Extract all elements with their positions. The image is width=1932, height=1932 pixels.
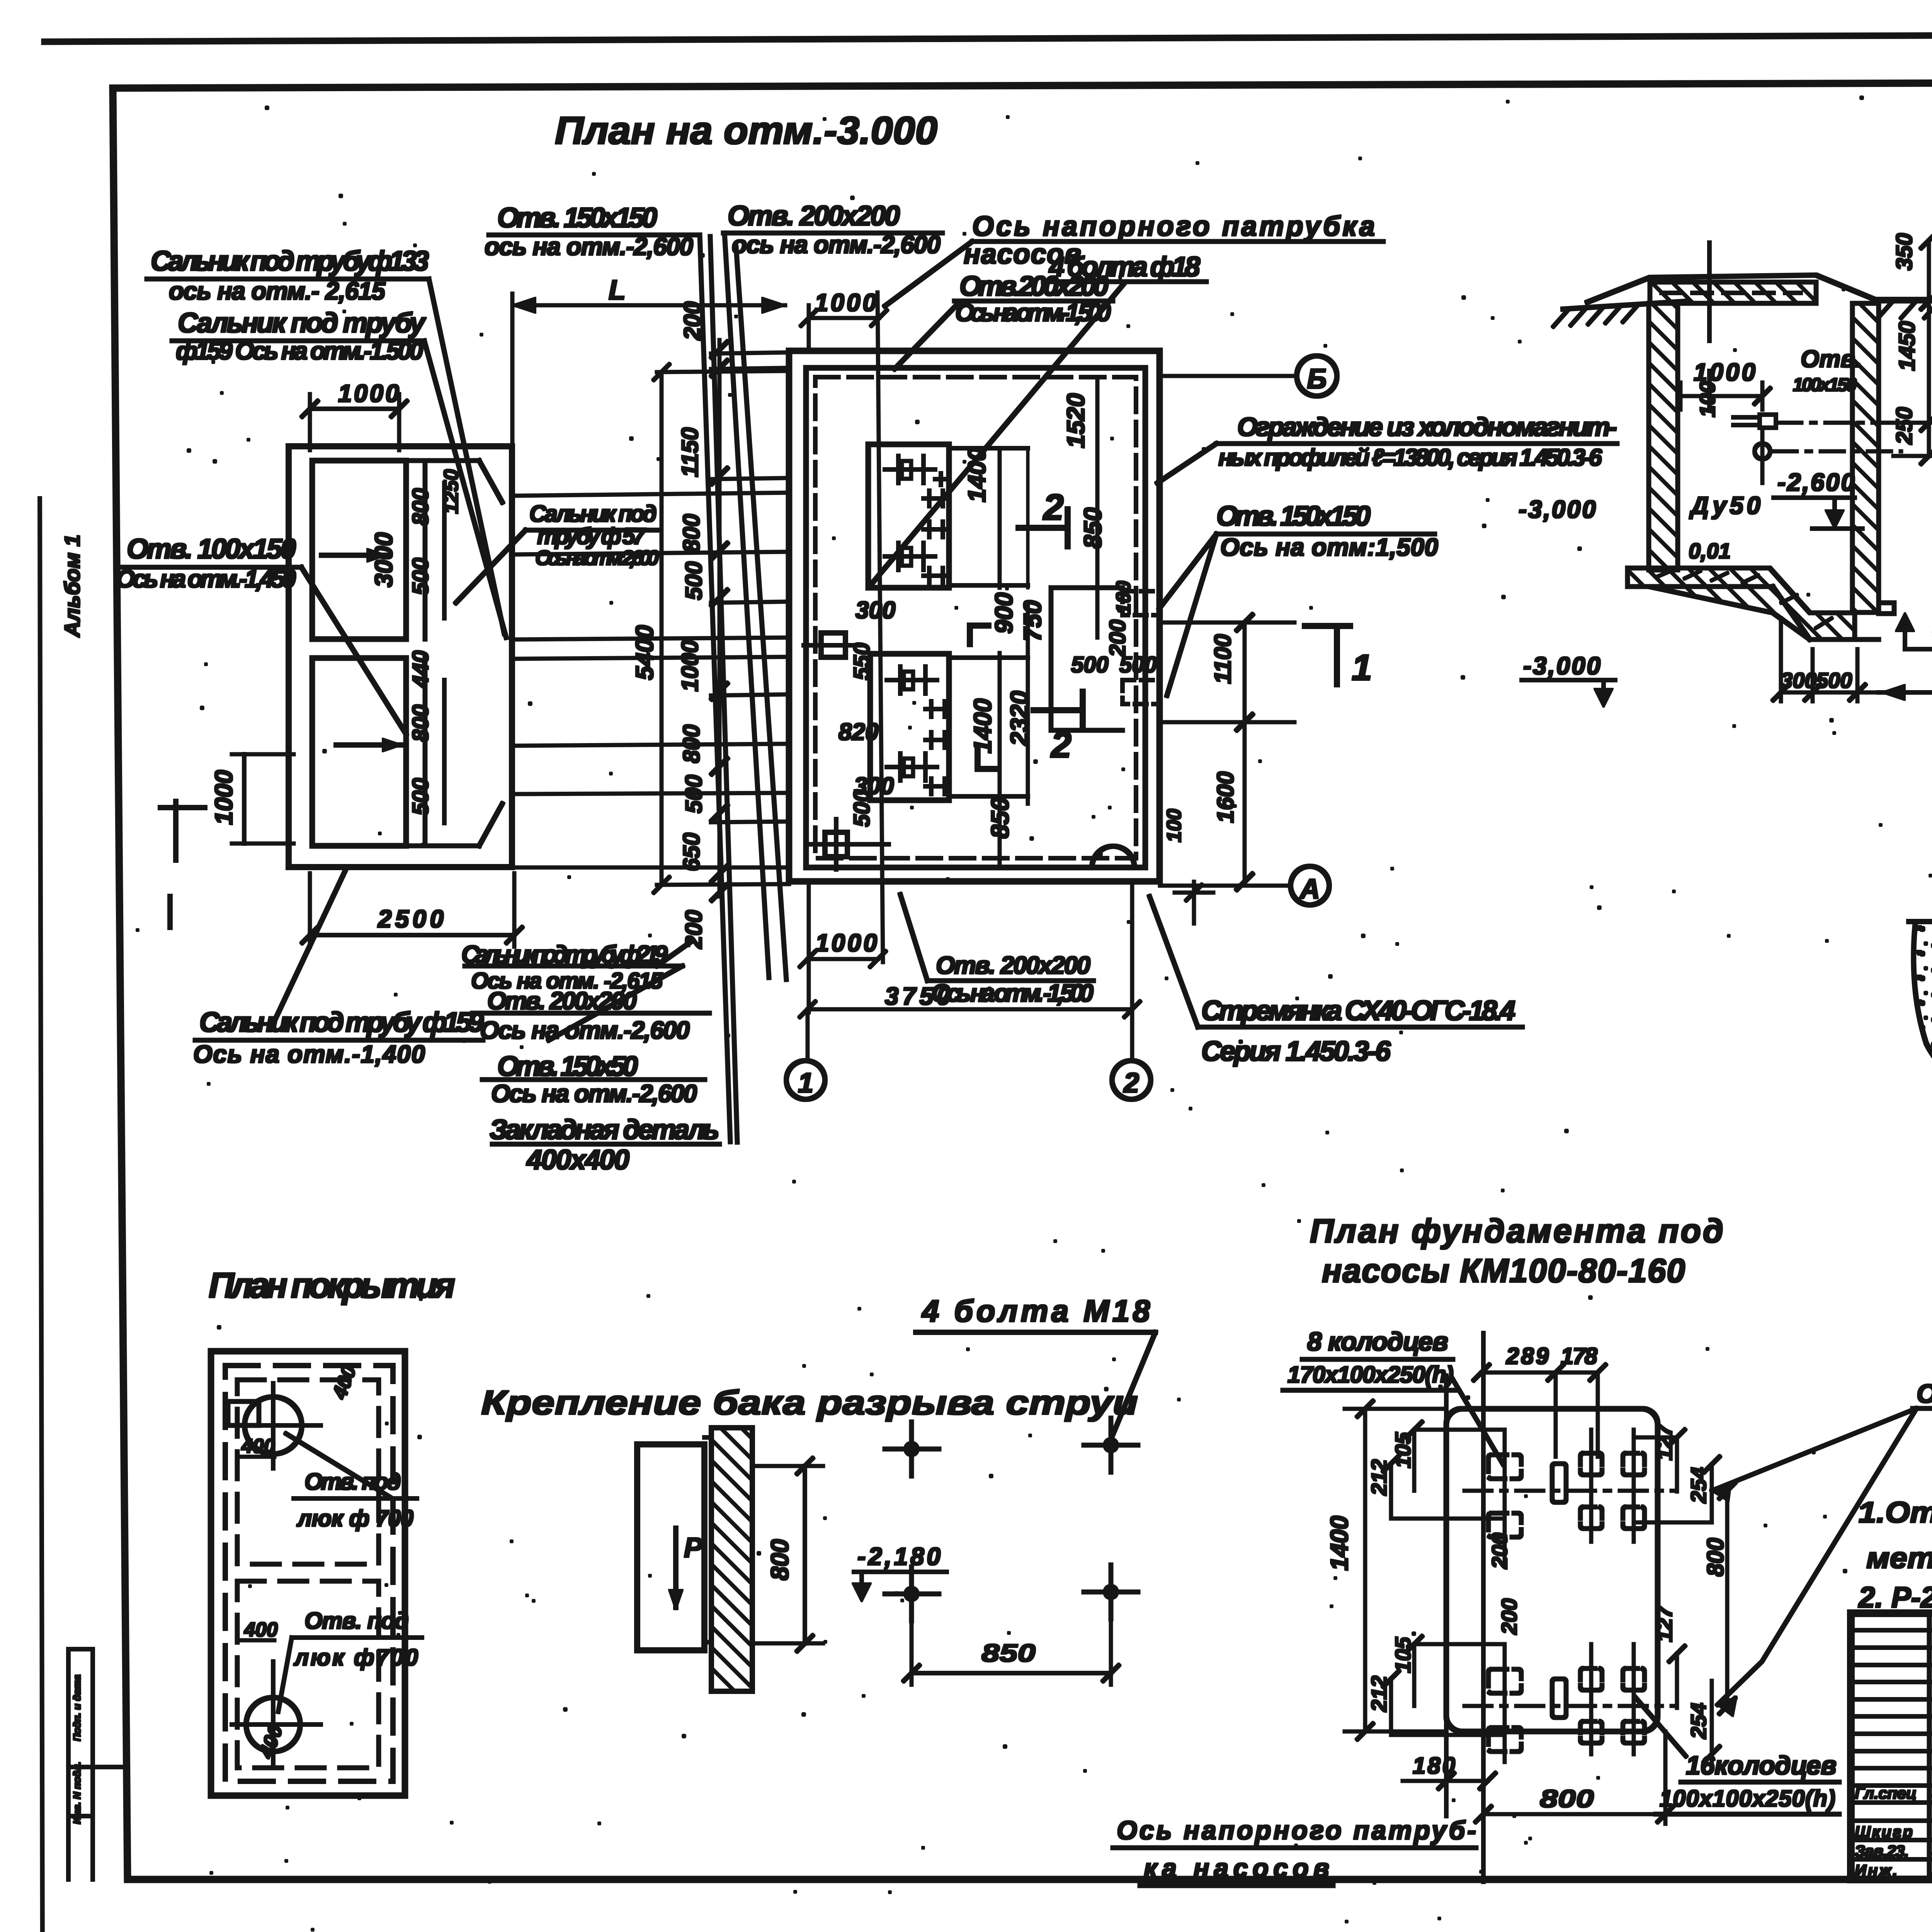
svg-text:750: 750: [1019, 600, 1046, 641]
dim 2500 bottom: [310, 934, 514, 937]
svg-text:Сальник под трубуф133: Сальник под трубуф133: [151, 246, 429, 277]
svg-text:200: 200: [1487, 1533, 1512, 1569]
1000 bottom dim: [808, 958, 878, 961]
bottom hatch compartment dashed: [237, 1581, 379, 1768]
concrete trench body: [1913, 922, 1932, 1095]
vertical dim chain line: [718, 340, 721, 896]
dim 1400 left: [1364, 1409, 1367, 1731]
svg-text:850: 850: [986, 797, 1014, 838]
-3,000 left mark: [1522, 679, 1615, 682]
outer wall: [789, 351, 1160, 881]
svg-text:Отв. 150x50: Отв. 150x50: [497, 1051, 638, 1082]
pump foundation 2: [870, 654, 949, 800]
svg-text:100: 100: [1112, 581, 1135, 614]
-2,180 mark: [854, 1570, 947, 1573]
leader discharge axis: [885, 241, 972, 306]
inner wall: [806, 368, 1145, 867]
svg-text:212: 212: [1367, 1676, 1391, 1712]
page left edge line: [40, 498, 43, 1932]
svg-text:Стремянка СХ40-ОГС-18.4: Стремянка СХ40-ОГС-18.4: [1201, 995, 1515, 1026]
leader 4 bolts to pump: [871, 284, 1124, 584]
svg-text:1250: 1250: [440, 469, 463, 514]
svg-text:3000: 3000: [370, 532, 398, 587]
left small dims 212/105 upper: [1390, 1464, 1393, 1519]
svg-text:289: 289: [1506, 1343, 1549, 1369]
svg-text:Крепление бака разрыва стру: Крепление бака разрыва струи: [481, 1383, 1138, 1422]
svg-text:400x400: 400x400: [526, 1145, 629, 1175]
pit right wall hatched: [1852, 303, 1879, 612]
svg-text:820: 820: [838, 719, 878, 745]
svg-text:400: 400: [244, 1619, 278, 1641]
svg-text:350: 350: [1892, 233, 1917, 270]
L dim: [1879, 691, 1932, 694]
svg-text:400: 400: [255, 1722, 287, 1761]
right dims 127/254 upper: [1676, 1437, 1679, 1492]
hole in pit (otv 100x150): [1760, 415, 1776, 428]
left table rows: [1851, 1630, 1932, 1859]
svg-text:100: 100: [1163, 809, 1185, 842]
svg-text:ось на отм.-2,600: ось на отм.-2,600: [485, 233, 693, 260]
leader gland f133 to plan: [429, 279, 504, 634]
suction axis leader: [1712, 1408, 1917, 1491]
inner wall top compartment: [312, 461, 406, 639]
section 1-1 texts: [1519, 207, 1932, 789]
svg-text:254: 254: [1686, 1467, 1711, 1503]
400 dims: [240, 1456, 274, 1458]
outer wall rectangle: [289, 446, 512, 867]
P load arrow: [674, 1528, 678, 1607]
svg-text:1400: 1400: [963, 447, 991, 502]
bolt wells: upper pump: [1488, 1453, 1645, 1537]
svg-text:500: 500: [681, 561, 707, 600]
ground hatch left of pit: [1553, 304, 1638, 327]
axis bubbles: [786, 356, 1337, 1099]
svg-text:500: 500: [849, 789, 874, 827]
svg-text:2. Р-280кг-вертикальная нагру: 2. Р-280кг-вертикальная нагрузка от бака…: [1858, 1581, 1932, 1614]
svg-text:насосы КМ100-80-160: насосы КМ100-80-160: [1322, 1252, 1685, 1289]
dim 1000 left: [243, 754, 246, 844]
svg-text:500: 500: [1071, 652, 1109, 677]
svg-text:650: 650: [679, 833, 704, 871]
svg-text:ка насосов: ка насосов: [1144, 1854, 1329, 1883]
svg-text:-3,000: -3,000: [1523, 652, 1600, 680]
dim 800: [803, 1466, 806, 1643]
svg-text:850: 850: [981, 1639, 1036, 1667]
svg-text:Сальник под трубу: Сальник под трубу: [178, 308, 427, 338]
svg-text:ось на отм.- 2,615: ось на отм.- 2,615: [169, 277, 386, 305]
svg-text:1: 1: [798, 1068, 813, 1099]
svg-text:105: 105: [1391, 1432, 1415, 1468]
svg-text:250: 250: [1892, 407, 1917, 445]
fence dashed rect: [815, 377, 1136, 858]
svg-text:ось на отм.-2,600: ось на отм.-2,600: [732, 231, 940, 259]
underline 200x200: [723, 231, 942, 235]
svg-text:Ось на отм.-2,600: Ось на отм.-2,600: [491, 1080, 697, 1107]
svg-text:16колодцев: 16колодцев: [1686, 1751, 1837, 1780]
ground line left: [1563, 301, 1685, 309]
svg-text:Ограждение из холодномагнит-: Ограждение из холодномагнит-: [1237, 412, 1617, 442]
L dim top: [512, 304, 785, 307]
leader gland f159 bottom to plan: [270, 869, 346, 1029]
node B bubble: [1297, 356, 1337, 396]
node 1 bubble: [786, 1061, 825, 1099]
pit floor slab: [1628, 568, 1855, 639]
svg-text:1450: 1450: [1895, 321, 1920, 371]
right dims 127/254 lower: [1676, 1654, 1679, 1708]
svg-text:800: 800: [679, 514, 704, 553]
svg-text:1000: 1000: [210, 770, 238, 825]
underline 4 bolts: [1043, 280, 1206, 284]
bolt crosses: [885, 1418, 1138, 1621]
svg-text:200: 200: [679, 301, 705, 340]
svg-text:200: 200: [1497, 1599, 1521, 1635]
svg-text:Ось напорного патруб-: Ось напорного патруб-: [1117, 1816, 1476, 1845]
left table verticals: [1928, 1613, 1931, 1879]
leader gland f57: [456, 530, 526, 603]
svg-text:105: 105: [1391, 1637, 1415, 1673]
svg-text:Сальник под: Сальник под: [529, 501, 657, 527]
svg-text:Отв. 100x150: Отв. 100x150: [127, 534, 296, 565]
underline hole 100x150: [122, 566, 301, 569]
svg-text:254: 254: [1686, 1703, 1711, 1739]
dims 289/178 top: [1481, 1371, 1598, 1374]
svg-text:500: 500: [1816, 668, 1852, 692]
svg-text:300: 300: [1781, 668, 1816, 692]
svg-text:200: 200: [681, 910, 707, 949]
svg-text:Б: Б: [1307, 364, 1327, 395]
left margin stamp strip: [68, 1649, 128, 1879]
outer slab rect: [211, 1351, 405, 1796]
leader hole 100x150 to left plan: [301, 567, 406, 734]
svg-text:800: 800: [766, 1539, 794, 1580]
pit left wall hatched: [1649, 303, 1678, 570]
svg-text:300: 300: [855, 597, 895, 624]
right side dims: 1100/1600/100 column: [1243, 622, 1246, 882]
svg-text:Р: Р: [684, 1532, 703, 1563]
svg-text:100: 100: [1695, 381, 1719, 417]
page top edge line: [44, 33, 1932, 42]
svg-text:Закладная деталь: Закладная деталь: [490, 1114, 719, 1145]
door opening arc bottom right: [1092, 846, 1134, 867]
svg-text:100х100х250(h): 100х100х250(h): [1660, 1786, 1835, 1811]
right dim 800: [1726, 1491, 1729, 1706]
svg-text:Ось на отм.-1,500: Ось на отм.-1,500: [955, 299, 1111, 327]
frame left: [113, 88, 128, 1879]
svg-text:Альбом 1: Альбом 1: [60, 534, 84, 638]
svg-text:500: 500: [1119, 652, 1157, 677]
centerlines lower: [1464, 1705, 1673, 1708]
svg-text:1520: 1520: [1062, 393, 1090, 448]
section mark 2 bottom: [1034, 708, 1083, 713]
dims right of pit: 350/1450/250 chain: [1928, 240, 1930, 456]
svg-text:2: 2: [1123, 1068, 1139, 1099]
pit cover slab hatched: [1650, 282, 1816, 303]
embedded plate 1: [821, 633, 845, 657]
sump lip right: [1879, 603, 1894, 614]
interior partition lines right part: [1049, 588, 1053, 730]
-2,600 mark: [1774, 496, 1855, 499]
dim 1000 top: [310, 407, 399, 410]
svg-text:800: 800: [408, 488, 433, 526]
underline gland f159: [172, 339, 424, 343]
svg-text:500: 500: [408, 778, 433, 815]
svg-text:800: 800: [1702, 1538, 1728, 1577]
-3,300 mark: [1896, 613, 1914, 631]
svg-text:Ось на отм.-1,450: Ось на отм.-1,450: [116, 565, 296, 593]
long leaders from top labels down: [700, 235, 730, 1142]
chain ticks: [712, 342, 727, 900]
underline 200x200 (2): [954, 299, 1113, 303]
embedded plate 2: [825, 832, 847, 857]
svg-text:Серия 1.450.3-6: Серия 1.450.3-6: [1201, 1036, 1391, 1067]
svg-text:400: 400: [328, 1362, 361, 1402]
dim 800 bottom: [1483, 1813, 1665, 1816]
svg-text:1100: 1100: [1210, 634, 1236, 684]
manhole circle bottom: [246, 1697, 300, 1752]
underline gland f133: [147, 277, 429, 281]
svg-text:Сальник под трубу ф159: Сальник под трубу ф159: [199, 1007, 484, 1038]
svg-text:Зав.23.: Зав.23.: [1855, 1842, 1909, 1860]
svg-text:500: 500: [408, 558, 433, 595]
lower-left labels: [193, 940, 719, 1175]
svg-text:1400: 1400: [1325, 1516, 1353, 1571]
svg-text:1000: 1000: [677, 640, 703, 692]
vent pipe centerline: [1708, 243, 1711, 341]
underline gland f57: [526, 529, 657, 532]
node A bubble: [1291, 866, 1329, 905]
svg-text:2500: 2500: [378, 905, 444, 933]
svg-text:метке чистого пола производ: метке чистого пола производственного пом…: [1866, 1542, 1932, 1575]
svg-text:440: 440: [408, 650, 433, 688]
svg-text:ных профилей ℓ=13800, серия 1.: ных профилей ℓ=13800, серия 1.450.3-6: [1218, 444, 1602, 471]
svg-text:100x150: 100x150: [1793, 375, 1857, 395]
svg-text:1400: 1400: [969, 699, 997, 753]
svg-text:200: 200: [1105, 619, 1130, 657]
svg-text:люк ф700: люк ф700: [293, 1645, 418, 1670]
inner dims verticals (1520,850 / 1400): [1096, 381, 1099, 638]
wall hatched strip: [711, 1428, 752, 1691]
left small dims 212/105 lower: [1390, 1679, 1393, 1735]
svg-text:Ось на отм:1,500: Ось на отм:1,500: [1220, 533, 1438, 561]
cover slab dashes: [1662, 291, 1801, 294]
section mark 1 right: [1305, 626, 1350, 684]
svg-text:План фундамента под: План фундамента под: [1310, 1213, 1723, 1250]
bottom dims 300/500 and L: [1780, 618, 1782, 701]
svg-text:Отв. 150x150: Отв. 150x150: [497, 202, 657, 233]
rotated dims main plan: [609, 275, 1238, 1010]
ground mound over pit: [1587, 275, 1875, 302]
svg-text:500: 500: [681, 775, 707, 813]
svg-text:800: 800: [1540, 1785, 1594, 1813]
top surface line: [1909, 920, 1932, 923]
frame bottom: [128, 1877, 1932, 1883]
svg-text:0,01: 0,01: [1689, 539, 1731, 563]
svg-text:Ось всасывающего: Ось всасывающего: [1917, 1379, 1932, 1408]
svg-text:2320: 2320: [1005, 691, 1033, 746]
svg-text:1000: 1000: [815, 929, 877, 957]
svg-text:850: 850: [1079, 507, 1107, 549]
svg-text:трубу ф 57: трубу ф 57: [537, 523, 646, 549]
svg-text:800: 800: [679, 724, 704, 763]
pump 1 anchor crosses: [885, 456, 947, 583]
svg-text:550: 550: [849, 643, 874, 680]
svg-text:L: L: [609, 275, 626, 306]
svg-text:-2,180: -2,180: [857, 1543, 940, 1570]
svg-text:Ось на отм.-1,400: Ось на отм.-1,400: [193, 1040, 425, 1068]
leaders: [1452, 1378, 1503, 1464]
3750 dim: [808, 1008, 1132, 1011]
pump foundation 1: [868, 444, 949, 588]
svg-text:1000: 1000: [338, 379, 399, 407]
wall holes right side: [1122, 591, 1160, 615]
centerlines upper: [1464, 1490, 1673, 1492]
svg-text:Шкигр: Шкигр: [1855, 1823, 1913, 1841]
discharge axis verticals: [1482, 1333, 1485, 1882]
svg-text:8 колодцев: 8 колодцев: [1307, 1327, 1448, 1356]
svg-text:Инв. N подл.: Инв. N подл.: [71, 1762, 83, 1824]
svg-text:-3,000: -3,000: [1519, 495, 1596, 523]
svg-text:2: 2: [1043, 487, 1064, 528]
slab outline: [1446, 1409, 1658, 1731]
flow arrows: [321, 553, 386, 557]
svg-text:4 болта М18: 4 болта М18: [921, 1294, 1150, 1328]
top hatch compartment dashed: [237, 1380, 379, 1564]
svg-text:Отв. под: Отв. под: [304, 1608, 409, 1634]
underline discharge axis: [972, 240, 1383, 243]
svg-text:900: 900: [990, 592, 1018, 634]
frame top: [115, 81, 1932, 88]
dim 850: [912, 1672, 1111, 1675]
svg-text:2: 2: [1050, 724, 1071, 765]
svg-text:400: 400: [241, 1435, 275, 1458]
svg-text:А: А: [1299, 874, 1320, 905]
svg-text:-2,600: -2,600: [1777, 468, 1855, 496]
svg-text:Ду50: Ду50: [1689, 492, 1760, 519]
svg-text:170х100х250(h): 170х100х250(h): [1287, 1362, 1454, 1388]
svg-text:1150: 1150: [677, 427, 703, 477]
svg-text:Отв. 200x200: Отв. 200x200: [487, 987, 637, 1015]
svg-text:Отв.: Отв.: [1801, 346, 1862, 372]
svg-text:127: 127: [1652, 1605, 1677, 1642]
bolt wells: lower pump: [1488, 1668, 1645, 1752]
Du50 pipe circle: [1755, 444, 1770, 459]
leader 200x200(2): [895, 302, 959, 369]
dim 1000 inside pit: [1680, 395, 1762, 398]
svg-text:Ось на отм:2,600: Ось на отм:2,600: [535, 546, 659, 570]
svg-text:План на отм.-3.000: План на отм.-3.000: [555, 109, 937, 152]
svg-text:1000: 1000: [815, 289, 876, 316]
floor hatch: [1658, 570, 1673, 577]
svg-text:Ось напорного патрубка: Ось напорного патрубка: [972, 211, 1375, 242]
svg-text:Сальникпод трубуф219: Сальникпод трубуф219: [461, 940, 668, 968]
svg-text:Отв.200x200: Отв.200x200: [959, 271, 1109, 302]
svg-text:178: 178: [1561, 1343, 1598, 1369]
svg-text:Гл.спец: Гл.спец: [1855, 1784, 1917, 1802]
section mark L top: [970, 626, 988, 644]
svg-text:1600: 1600: [1213, 772, 1238, 823]
long verticals: [878, 293, 883, 962]
pump 2 anchor crosses: [887, 667, 949, 794]
svg-text:Отв. 200x200: Отв. 200x200: [936, 951, 1090, 979]
leader gland f219: [657, 941, 692, 966]
node 2 bubble: [1112, 1061, 1151, 1099]
svg-text:800: 800: [408, 704, 433, 742]
svg-text:127: 127: [1652, 1423, 1677, 1461]
1000 top dim: [809, 317, 879, 320]
extension lines joining plans: [514, 493, 789, 496]
inner wall bottom compartment: [312, 658, 406, 846]
svg-text:1: 1: [1352, 647, 1372, 688]
svg-text:1.Отметка 0.000 соответствует: 1.Отметка 0.000 соответствует абсолютной…: [1859, 1496, 1932, 1529]
right chamber inner lines: [406, 459, 479, 463]
manhole circle top: [245, 1397, 302, 1454]
section mark small: [174, 801, 178, 860]
leader to label: [286, 1434, 390, 1497]
svg-text:Инж.: Инж.: [1855, 1861, 1897, 1879]
svg-text:Отв. под: Отв. под: [304, 1469, 401, 1495]
inner dashed rect: [225, 1366, 393, 1781]
5400 dim line: [660, 372, 663, 885]
svg-text:Отв. 200x200: Отв. 200x200: [728, 201, 900, 231]
axis bubble lines: [806, 1012, 809, 1060]
right side labels: [931, 412, 1617, 1067]
section mark 2 top: [1019, 526, 1068, 530]
svg-text:Подп. и дата: Подп. и дата: [71, 1675, 83, 1741]
svg-text:люк ф 700: люк ф 700: [296, 1505, 413, 1531]
svg-text:5400: 5400: [631, 625, 658, 680]
svg-text:212: 212: [1367, 1459, 1391, 1496]
underline 150x150: [489, 233, 700, 237]
svg-text:180: 180: [1413, 1753, 1455, 1779]
svg-text:Ось на отм. -1,500: Ось на отм. -1,500: [931, 979, 1094, 1007]
tank: [637, 1444, 704, 1650]
dim 180 bottom: [1446, 1780, 1488, 1782]
svg-text:Отв. 150x150: Отв. 150x150: [1216, 501, 1371, 532]
svg-text:План покрытия: План покрытия: [209, 1266, 455, 1305]
